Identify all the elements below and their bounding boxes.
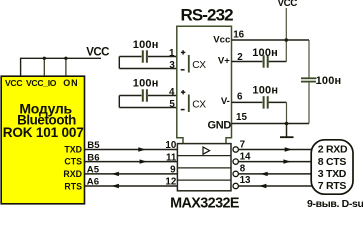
svg-text:13: 13 xyxy=(240,175,251,186)
junction dot ON xyxy=(64,57,67,60)
inverter bubble pin 8 xyxy=(233,171,238,176)
svg-text:V-: V- xyxy=(221,96,230,107)
svg-text:3 TXD: 3 TXD xyxy=(318,168,347,180)
wire VCC drop to pin 16 xyxy=(285,8,287,62)
svg-text:B6: B6 xyxy=(87,152,99,163)
svg-text:V+: V+ xyxy=(218,56,230,67)
wire RXD A5 to pin9 xyxy=(85,173,177,175)
svg-text:8: 8 xyxy=(240,164,246,175)
wire VCC_IO stub xyxy=(43,58,45,76)
IC U1 MAX3232E charge-pump section outline xyxy=(177,26,232,143)
junction dot VCC / pin16 xyxy=(285,38,289,42)
svg-text:6: 6 xyxy=(237,92,243,103)
internal capacitor CX (pins 1-3) xyxy=(181,50,207,72)
svg-text:100н: 100н xyxy=(133,39,159,51)
arrow on RTS wire (left) xyxy=(112,184,119,188)
svg-text:4: 4 xyxy=(169,87,175,98)
svg-text:RS-232: RS-232 xyxy=(180,6,233,25)
svg-text:100н: 100н xyxy=(316,75,342,87)
svg-text:11: 11 xyxy=(166,152,177,163)
arrow on RXD wire (left) xyxy=(112,172,119,176)
svg-text:GND: GND xyxy=(207,120,231,132)
connector X2 9-pin D-sub xyxy=(311,140,353,194)
junction dot VCC_IO xyxy=(43,57,46,60)
svg-text:7 RTS: 7 RTS xyxy=(318,180,347,192)
arrow on TXD wire (right) xyxy=(138,147,145,151)
svg-text:B5: B5 xyxy=(87,140,100,151)
wire pin 8 from DB9 pin 3 TXD xyxy=(238,173,311,175)
wire ON stub xyxy=(65,58,67,76)
inverter bubble pin 7 xyxy=(233,147,238,152)
svg-text:15: 15 xyxy=(236,112,247,123)
svg-text:9: 9 xyxy=(170,165,176,176)
wire CTS B6 to pin11 xyxy=(85,161,177,163)
svg-text:VCC: VCC xyxy=(5,78,22,88)
wire VCC supply rail above module xyxy=(21,58,101,76)
svg-text:ON: ON xyxy=(63,78,78,88)
buffer triangle symbol xyxy=(203,147,210,154)
svg-text:5: 5 xyxy=(169,99,175,110)
divider row2/row3 xyxy=(177,167,231,169)
svg-text:CTS: CTS xyxy=(64,156,82,166)
capacitor C1 100н between pins 1 and 3 xyxy=(119,39,177,69)
svg-text:16: 16 xyxy=(233,29,244,40)
svg-text:14: 14 xyxy=(240,152,251,163)
junction dot V- return / GND xyxy=(285,122,289,126)
svg-text:VCC_IO: VCC_IO xyxy=(26,78,57,88)
svg-text:VCC: VCC xyxy=(278,0,298,9)
wire pin 16 Vcc xyxy=(232,39,310,41)
capacitor C3 100н on V+ (pin 2) xyxy=(232,47,287,68)
inverter bubble pin 14 xyxy=(233,159,238,164)
wire pin 7 to DB9 pin 2 RXD xyxy=(238,149,311,151)
capacitor C4 100н on V- (pin 6) xyxy=(232,84,287,123)
module X1 Bluetooth ROK 101 007 xyxy=(1,76,84,204)
svg-text:100н: 100н xyxy=(252,47,278,59)
svg-text:TXD: TXD xyxy=(64,144,82,154)
svg-text:100н: 100н xyxy=(133,78,159,90)
svg-text:1: 1 xyxy=(169,48,175,59)
svg-text:Vcc: Vcc xyxy=(213,34,231,45)
wire pin 15 GND xyxy=(232,123,310,125)
svg-text:8 CTS: 8 CTS xyxy=(318,156,347,168)
capacitor C5 100н Vcc bypass (vertical) xyxy=(301,40,341,124)
svg-text:A5: A5 xyxy=(87,165,100,176)
ground symbol xyxy=(280,124,294,138)
internal capacitor CX (pins 4-5) xyxy=(181,90,207,112)
wire pin 14 to DB9 pin 8 CTS xyxy=(238,161,311,163)
wire RTS A6 to pin12 xyxy=(85,185,177,187)
svg-text:7: 7 xyxy=(240,140,246,151)
inverter bubble pin 13 xyxy=(233,183,238,188)
divider row1/row2 xyxy=(177,155,231,157)
arrow to 8 CTS xyxy=(283,159,290,163)
svg-text:CX: CX xyxy=(192,60,206,71)
IC U1 driver/receiver section box xyxy=(177,144,231,191)
arrow on CTS wire (right) xyxy=(140,159,147,163)
arrow from 3 TXD xyxy=(260,172,267,176)
svg-text:2: 2 xyxy=(237,52,243,63)
svg-text:VCC: VCC xyxy=(86,46,109,58)
svg-text:3: 3 xyxy=(169,60,175,71)
svg-text:RXD: RXD xyxy=(63,169,82,179)
wire pin 13 from DB9 pin 7 RTS xyxy=(238,185,311,187)
svg-text:A6: A6 xyxy=(87,177,99,188)
svg-text:RTS: RTS xyxy=(64,181,82,191)
svg-text:ROK 101 007: ROK 101 007 xyxy=(3,125,84,140)
arrow from 7 RTS xyxy=(259,184,266,188)
divider row3/row4 xyxy=(177,179,231,181)
svg-text:2 RXD: 2 RXD xyxy=(318,144,348,156)
svg-text:9-выв. D-sub: 9-выв. D-sub xyxy=(307,198,363,209)
svg-text:MAX3232E: MAX3232E xyxy=(170,195,240,209)
arrow to 2 RXD xyxy=(285,147,292,151)
wire TXD B5 to pin10 xyxy=(85,149,177,151)
capacitor C2 100н between pins 4 and 5 xyxy=(119,78,177,108)
svg-text:100н: 100н xyxy=(252,84,278,96)
svg-text:CX: CX xyxy=(192,99,206,110)
svg-text:10: 10 xyxy=(165,140,176,151)
svg-text:12: 12 xyxy=(165,177,176,188)
